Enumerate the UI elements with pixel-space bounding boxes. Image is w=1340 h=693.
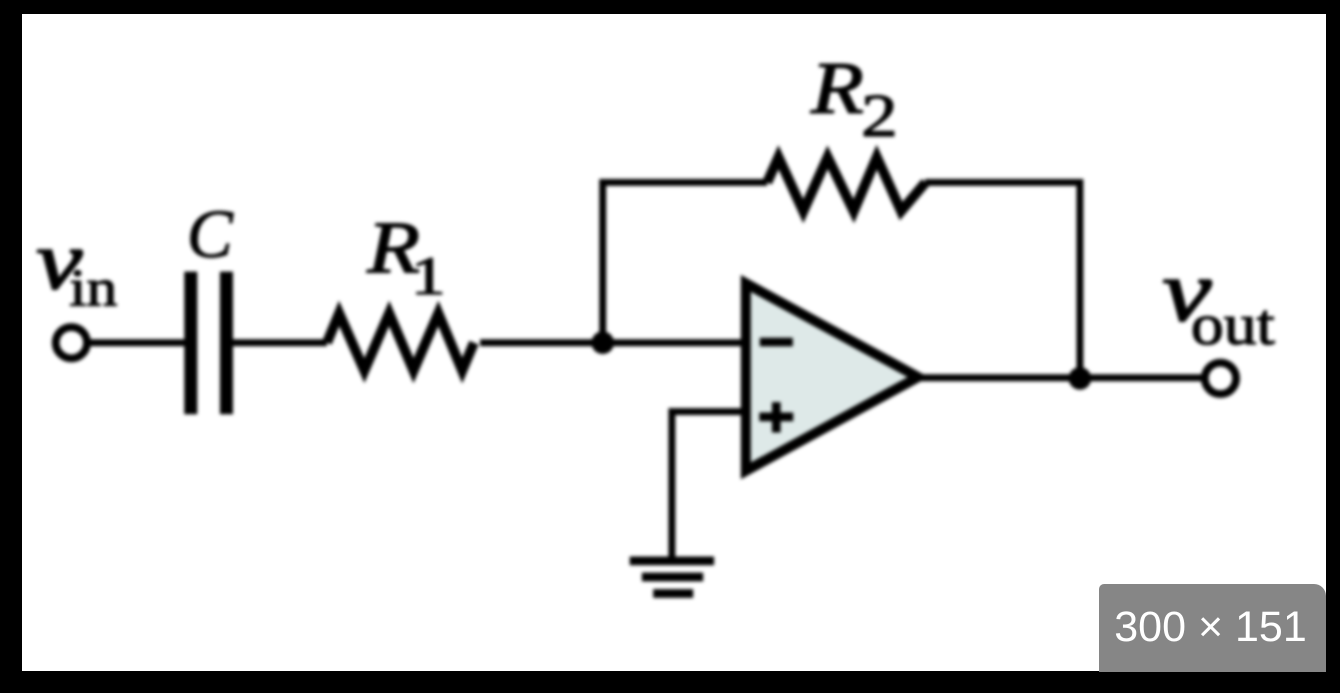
svg-text:in: in <box>69 259 117 317</box>
svg-text:1: 1 <box>410 246 445 306</box>
svg-text:out: out <box>1190 292 1274 357</box>
svg-text:2: 2 <box>861 83 898 150</box>
svg-text:C: C <box>186 196 233 272</box>
svg-text:R: R <box>809 47 863 129</box>
